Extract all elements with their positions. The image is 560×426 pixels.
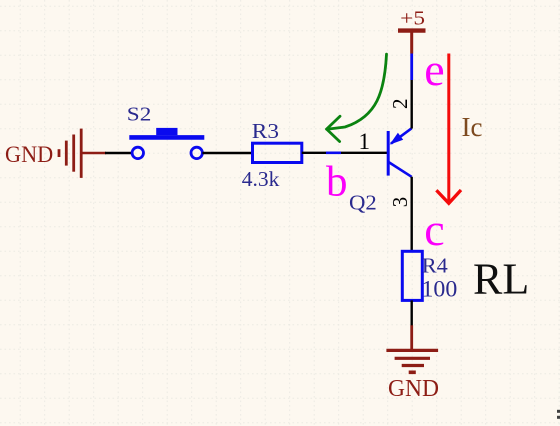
- wire: switch to R3: [202, 152, 253, 154]
- svg-text:R4: R4: [422, 253, 449, 277]
- svg-text:+5: +5: [400, 8, 425, 30]
- ground symbol (bottom): [386, 325, 438, 372]
- svg-text:e: e: [424, 44, 444, 95]
- svg-text:R3: R3: [252, 119, 279, 143]
- ground symbol (left, rotated): [59, 129, 106, 178]
- emitter pin stub: [410, 54, 413, 81]
- power +5 bar: [398, 31, 426, 54]
- wire: R4 to ground: [411, 300, 413, 326]
- base pin stub: [326, 152, 341, 155]
- svg-text:RL: RL: [473, 255, 529, 304]
- wire: power to emitter: [411, 80, 413, 129]
- svg-text:S2: S2: [127, 104, 152, 126]
- wire: collector to R4: [411, 177, 413, 252]
- svg-text:4.3k: 4.3k: [242, 167, 280, 191]
- green arrow (base drive): [327, 54, 387, 141]
- svg-text:b: b: [326, 158, 348, 205]
- svg-text:1: 1: [359, 129, 371, 154]
- svg-text:3: 3: [388, 197, 412, 208]
- resistor R3: [253, 143, 302, 162]
- transistor Q2: [388, 128, 411, 177]
- wire: R3 to base: [302, 152, 388, 154]
- svg-text:100: 100: [422, 277, 458, 302]
- svg-text:GND: GND: [5, 142, 53, 168]
- red arrow Ic: [436, 54, 461, 204]
- wire: ground to switch: [105, 152, 132, 154]
- switch S2: [129, 128, 204, 159]
- svg-text:Ic: Ic: [462, 112, 483, 142]
- svg-text:2: 2: [388, 99, 412, 110]
- edge marks: [557, 410, 560, 413]
- svg-text:c: c: [424, 204, 444, 255]
- resistor R4: [402, 251, 422, 300]
- svg-text:Q2: Q2: [349, 190, 377, 214]
- svg-text:GND: GND: [388, 375, 439, 402]
